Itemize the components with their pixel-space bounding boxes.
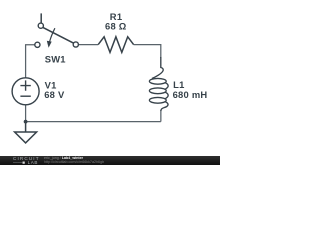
svg-text:68 V: 68 V (44, 89, 65, 100)
wire resistor right to top-right corner and down (134, 45, 161, 58)
V1 minus sign (20, 95, 30, 97)
resistor R1 zigzag (98, 37, 133, 53)
junction node dot (24, 120, 28, 124)
switch SW1 lever (43, 27, 74, 43)
switch SW1 top throw stub (40, 13, 42, 23)
voltage source V1 circle (12, 78, 39, 105)
watermark logo CIRCUIT LAB (13, 157, 40, 165)
wire switch-right contact to resistor (79, 44, 99, 46)
wire bottom rail (26, 121, 161, 123)
wire V1 bottom to junction (25, 105, 27, 122)
switch SW1 top throw contact circle (38, 23, 43, 28)
inductor L1 coil (149, 57, 168, 111)
switch SW1 action arrow shaft (50, 28, 55, 41)
watermark credit line (44, 157, 104, 165)
wire switch-left contact to corner and down to V1 top (26, 45, 35, 78)
switch SW1 left contact circle (35, 42, 40, 47)
ground triangle (15, 132, 37, 143)
svg-text:68 Ω: 68 Ω (105, 20, 127, 31)
V1 plus sign (20, 80, 30, 90)
switch SW1 action arrow head (47, 41, 52, 48)
watermark bar (0, 156, 220, 165)
svg-text:SW1: SW1 (45, 54, 66, 65)
switch SW1 right contact circle (73, 42, 78, 47)
ground stub (25, 122, 27, 132)
wire inductor bottom to rail (160, 110, 162, 122)
svg-text:680 mH: 680 mH (173, 89, 208, 100)
